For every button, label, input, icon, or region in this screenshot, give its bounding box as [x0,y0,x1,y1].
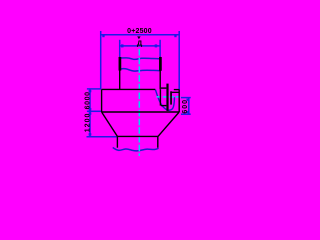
shell right wall thick section [159,57,162,71]
dimension D2 arrow left [121,44,124,47]
base top edge right segment [174,89,179,91]
lower shell right wall [157,136,159,147]
left dimension tick bottom [87,136,118,138]
base right edge [178,90,180,113]
right dimension line vertical 600 [188,98,190,115]
svg-text:1200: 1200 [85,113,92,133]
base top edge [102,88,156,90]
centerline nozzle horizontal [157,96,182,98]
break wavy line lower [120,69,161,71]
dimension D1 line 0+2500 [101,34,180,36]
station marker triangle [137,36,140,39]
dimension D2 extension line left [119,40,121,57]
nozzle pipe top line [161,87,167,89]
right dimension tick top [181,97,191,99]
svg-text:Д: Д [137,38,143,47]
left dimension arrows [89,90,92,92]
svg-text:600: 600 [182,99,189,114]
nozzle cutout curve [155,90,174,111]
right dimension tick bottom [181,113,191,115]
left dimension tick top [87,88,101,90]
lower shell left wall [116,136,118,147]
left dimension tick middle [87,110,102,112]
base left edge [101,89,103,112]
dimension D2 extension line right [159,40,161,57]
skirt left diagonal [102,112,118,136]
svg-text:0+2500: 0+2500 [127,28,152,35]
break wavy line bottom [113,148,159,151]
dimension D1 arrow right [174,35,176,37]
dimension D1 extension line left [100,31,102,89]
shell right wall [159,57,161,90]
svg-text:6000: 6000 [85,91,92,109]
base inner line right [172,91,179,93]
shell left wall thick section [119,57,122,71]
skirt bottom edge [117,135,158,137]
flange plate 2 [170,91,172,104]
centerline vertical [138,49,140,156]
break wavy line upper [120,58,161,60]
dimension D1 extension line right [178,31,180,90]
left dimension line vertical [89,89,91,137]
dimension D2 arrow right [155,44,158,47]
shell right wall lower (nozzle region) [159,89,161,105]
nozzle pipe bottom line [161,105,167,107]
flange plate 1 [166,84,168,111]
dimension D2 line [120,45,160,47]
base bottom edge [102,111,180,113]
skirt right diagonal [158,112,179,136]
shell left wall [119,57,121,90]
right dimension arrows [187,99,189,101]
dimension D1 arrow left [102,35,104,37]
